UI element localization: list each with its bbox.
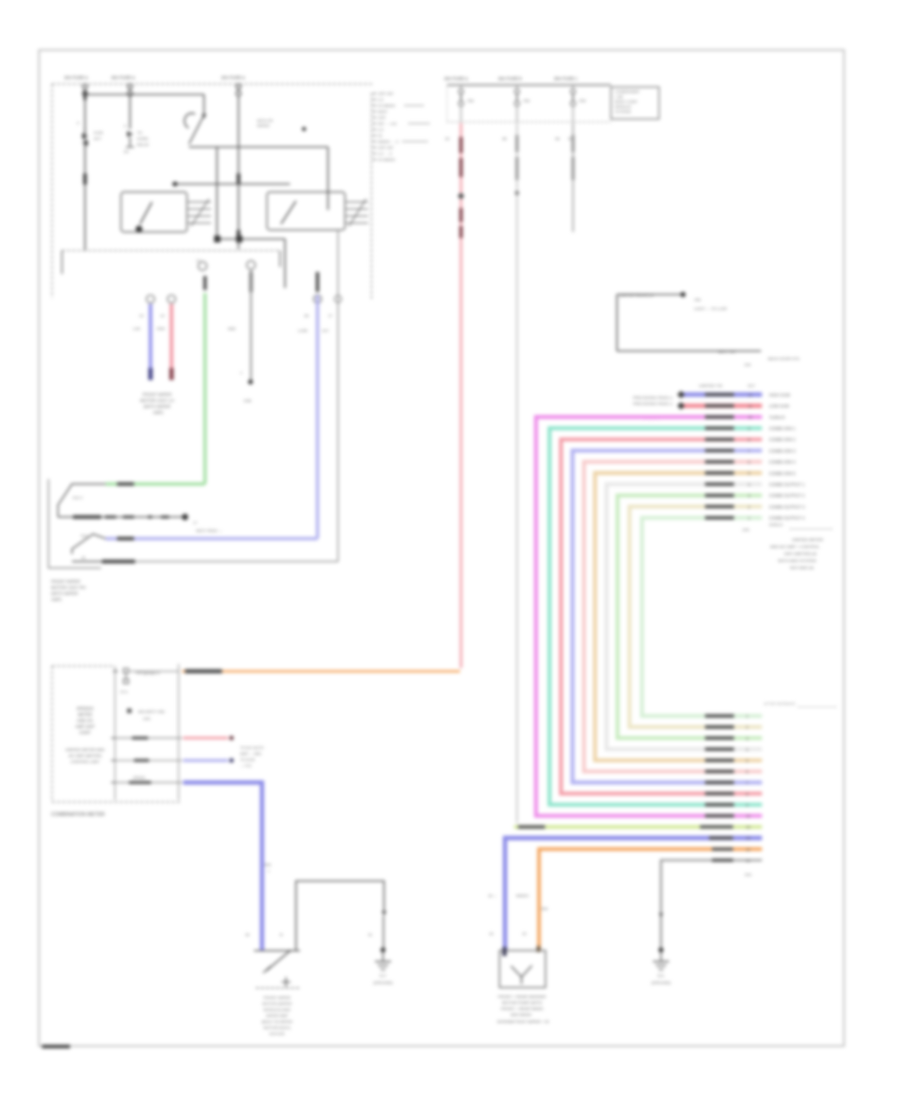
svg-text:WITH FR: WITH FR [257,119,273,123]
wire gray F6 drop [572,123,574,232]
label on lime row [518,825,545,828]
wire loop row 9 (#e8e8e8) [607,484,763,749]
svg-text:WASH → 2: WASH → 2 [378,139,399,144]
wire gray drop [250,269,252,380]
svg-text:CONTROL UNIT: CONTROL UNIT [70,759,100,764]
combination meter right rail [178,664,180,800]
label on row 6 [705,449,734,452]
svg-text:FRONT WIPER: FRONT WIPER [142,392,171,397]
svg-text:• UB: • UB [615,95,623,99]
wiper motor ground [373,950,393,985]
label on row 2 [705,404,734,407]
label on F6 wire [571,135,574,180]
meter left text block [75,706,95,735]
svg-text:MOTOR PUMP (WITH: MOTOR PUMP (WITH [502,1000,542,1005]
pin circle K2 drop [334,295,341,302]
svg-text:17: 17 [196,258,201,263]
unified meter text block [770,537,823,570]
wire blue lamp LH [149,304,153,368]
label on lavender wire [316,272,319,292]
svg-text:LOW SAW: LOW SAW [769,404,789,409]
svg-text:FRONT WIPER: FRONT WIPER [263,995,290,1000]
wiper motor frame [296,881,387,950]
connector lead blue [72,534,106,554]
svg-text:E11 2: E11 2 [73,496,83,500]
svg-text:PRECEDING PAGE a: PRECEDING PAGE a [633,401,673,406]
svg-text:7: 7 [748,449,750,453]
svg-text:CONDENSER: CONDENSER [615,90,640,94]
diode symbol below fuse F2 [124,124,150,154]
label on row 4 [705,427,734,430]
svg-text:E41: E41 [745,873,752,877]
svg-text:MOTOR ASSY RH: MOTOR ASSY RH [51,585,86,590]
label on blue washer row [709,836,733,839]
periwinkle stub end dot [229,758,233,762]
svg-text:7: 7 [746,781,748,785]
label on ground row [712,859,733,862]
svg-text:TO ECM: TO ECM [240,758,255,762]
svg-text:15A FUSE a: 15A FUSE a [111,75,135,80]
gray wire end dot [248,380,253,385]
combination meter dashed left [51,666,53,802]
svg-text:R/W: R/W [157,326,165,331]
wire loop row 4 (#8ee4cc) [550,428,763,805]
connector hatch right of relay K1 [188,199,211,226]
wiper relay note top line [617,293,683,298]
svg-text:AMP UNIT: AMP UNIT [75,724,95,729]
node dot relay note [680,292,685,297]
note text inside box [257,119,273,128]
node dot on F5 wire [515,191,519,195]
relay K2 switch blade [281,201,296,224]
svg-text:38: 38 [502,136,507,141]
meter pin row periwinkle [111,759,182,761]
wire black bottom run [72,561,338,563]
wire gray F5 drop [516,123,518,823]
svg-text:AMP): AMP) [153,410,164,415]
svg-text:MOTOR ASSY): MOTOR ASSY) [264,1025,292,1030]
wire relay feed horizontal [172,183,290,185]
svg-text:3: 3 [746,737,748,741]
svg-text:8: 8 [746,792,748,796]
label on F3 wire lower [237,230,241,236]
svg-text:6: 6 [748,461,750,465]
fuse F1 [83,84,88,96]
wire periwinkle stub [183,759,228,762]
svg-text:WITH NAVI SYSTEM: WITH NAVI SYSTEM [778,558,816,563]
pin circle 5 [314,295,322,303]
label on F3 wire [237,174,241,185]
svg-text:WIPER AMP: WIPER AMP [266,1013,288,1018]
svg-text:1: 1 [240,370,243,375]
dashed box combination-switch left edge [51,84,53,298]
red stub end dot [229,736,233,740]
combination switch bracket [62,251,280,275]
terminal square T2 [237,237,242,242]
svg-text:10A FUSE a: 10A FUSE a [221,75,245,80]
svg-text:TO: TO [137,131,142,135]
svg-text:5: 5 [746,759,748,763]
label on loop row 9 bottom [705,748,734,751]
svg-text:A/C AMP (METER): A/C AMP (METER) [68,753,102,758]
svg-text:17: 17 [193,521,197,525]
meter pin row orange [130,670,179,672]
label on loop row 7 bottom [705,770,734,773]
svg-text:18 →: 18 → [488,894,497,898]
svg-text:L/W: L/W [133,326,140,331]
label on row 10 [705,494,734,497]
svg-text:E27: E27 [748,383,756,388]
svg-text:12A: 12A [742,527,749,532]
svg-text:18: 18 [81,556,85,560]
svg-text:12A: 12A [744,363,751,367]
wire switch output [189,146,328,148]
washer pump labels upper [488,894,530,898]
svg-text:E9: E9 [124,150,129,154]
svg-text:9: 9 [748,427,750,431]
wire row 2 (#f28b96) [677,402,762,410]
note under top group [769,523,833,529]
label on row 12 [705,516,734,519]
wire switch drop to node [216,147,218,239]
combination meter dashed top [52,665,114,667]
svg-text:CONT: CONT [79,730,91,735]
wire lime row [514,825,762,829]
label on lavender horizontal [117,537,134,541]
svg-text:(BUILT IN WIPER: (BUILT IN WIPER [262,1019,293,1024]
svg-text:28: 28 [304,313,309,318]
label on red wire lower [459,208,463,238]
svg-text:WIPER: WIPER [257,124,270,128]
ground symbol right [651,950,671,985]
wiper motor switch blade [263,950,291,973]
svg-text:a: a [77,121,79,125]
svg-text:AND A/C: AND A/C [77,718,93,723]
label on lime row mid [700,825,733,828]
label on row 1 [705,393,734,396]
svg-text:AFTER SEPARATE: AFTER SEPARATE [764,702,796,706]
washer motor V symbol [511,966,532,985]
wire red lamp LH [170,304,174,368]
washer pin labels [489,932,526,936]
svg-text:(WIPER RELAY) a: (WIPER RELAY) a [620,293,654,298]
terminal cap red [169,368,173,380]
svg-text:a: a [124,124,127,128]
svg-text:INT → 4-6: INT → 4-6 [378,121,397,126]
combination meter inner rail [114,666,116,800]
svg-text:2: 2 [746,726,748,730]
svg-text:HORN: HORN [137,137,148,141]
svg-text:HI WASH: HI WASH [378,157,395,162]
svg-text:24: 24 [746,826,750,830]
svg-text:15: 15 [522,932,526,936]
svg-text:(WITH WIPER: (WITH WIPER [144,404,171,409]
svg-text:MODULE: MODULE [615,105,632,109]
svg-text:E21: E21 [658,974,665,978]
label on loop row 12 bottom [705,714,734,717]
wiper motor ground node [381,948,386,953]
svg-text:LO → 3: LO → 3 [378,151,393,156]
svg-text:COMBI OUTPUT 1: COMBI OUTPUT 1 [769,482,805,487]
connector lead green [58,484,106,517]
pin circle 4 [247,261,256,270]
svg-text:4: 4 [746,748,748,752]
washer motor box [500,951,546,988]
relay K2 box [267,192,345,230]
label on gray wire [249,272,252,292]
label on row 11 [705,505,734,508]
wire blue meter to motor [183,783,262,951]
wiper relay note bottom [617,349,761,354]
svg-text:UNIFIED METER: UNIFIED METER [792,537,823,542]
svg-text:METER: METER [78,712,92,717]
svg-text:17: 17 [328,313,333,318]
svg-text:30A: 30A [541,907,548,911]
lamp bracket left [49,479,102,568]
svg-text:COMBINATION METER: COMBINATION METER [51,812,105,818]
svg-text:20A: 20A [579,99,586,103]
svg-text:31: 31 [368,932,372,937]
power source text [615,90,640,114]
fuse F5 [515,85,531,122]
svg-text:COMBI S/W 4: COMBI S/W 4 [769,460,796,465]
svg-text:2: 2 [748,505,750,509]
label on loop row 4 bottom [705,803,734,806]
label on row 7 [705,460,734,463]
terminal cap orange washer [537,946,541,952]
wiper motor text block [262,995,293,1036]
svg-text:3: 3 [748,494,750,498]
meter gauge symbol [124,669,161,684]
label on green wire [203,276,206,290]
wire node bar drop [284,239,286,288]
fuse F6 [571,85,587,122]
svg-text:SPEEDO: SPEEDO [76,706,93,711]
washer motor text block [497,994,549,1024]
svg-text:15A: 15A [523,99,530,103]
svg-text:L/OR: L/OR [298,328,307,333]
label on row 8 [705,471,734,474]
svg-text:E105: E105 [94,131,103,135]
svg-text:30A: 30A [264,862,271,867]
wire fuse F2 down [129,96,131,129]
svg-text:18: 18 [245,932,249,937]
relay K1 switch blade [140,202,152,224]
svg-text:1: 1 [748,517,750,521]
svg-text:E12: E12 [81,534,88,538]
meter stub ref text [240,746,264,768]
node dot in box [302,127,306,131]
svg-text:6: 6 [746,770,748,774]
svg-text:12 a: 12 a [120,690,128,694]
meter left text block 2 [65,747,105,764]
svg-text:W/O NAVI ab: W/O NAVI ab [790,565,814,570]
IPDM dashed left [446,87,448,120]
label on loop row 10 bottom [705,736,734,739]
label on loop row 8 bottom [705,759,734,762]
meter pin row blue [111,776,182,783]
svg-text:OFF: OFF [378,115,387,120]
connector symbol on F1 wire [82,129,103,148]
fuse F3 [236,84,241,96]
label on row 5 [705,438,734,441]
svg-text:FRONT + REAR WASHER: FRONT + REAR WASHER [498,994,546,999]
node dot on relay feed [173,182,178,187]
svg-text:OFF INT: OFF INT [378,91,394,96]
label on loop row 6 bottom [705,781,734,784]
svg-text:22: 22 [746,848,750,852]
wire green drop [203,293,206,484]
svg-text:11: 11 [748,405,752,409]
wire frame leg to ground [383,916,385,948]
fuse F4 [459,85,475,122]
dashed box combination-switch right edge [371,93,373,299]
svg-text:9: 9 [746,803,748,807]
label on row 3 [705,415,734,418]
svg-text:TO A/C AUTO: TO A/C AUTO [240,746,264,750]
svg-text:16: 16 [489,932,493,936]
svg-text:INTERMITTENT WIPER + W: INTERMITTENT WIPER + W [497,1019,549,1024]
svg-text:8: 8 [748,438,750,442]
wiper motor stop symbol [282,977,291,987]
svg-text:SECURITY IND: SECURITY IND [138,710,165,714]
svg-text:4: 4 [748,483,750,487]
svg-text:14: 14 [160,313,165,318]
fuse F2 [128,84,133,96]
terminal cap blue [148,368,152,380]
svg-text:B: B [280,932,283,937]
wire green horizontal [106,482,205,485]
IPDM dashed bottom [447,121,611,123]
svg-text:HI: HI [378,133,382,138]
svg-text:LO: LO [378,97,383,102]
svg-text:COMBI S/W 5: COMBI S/W 5 [769,471,796,476]
legend text block right of box [373,91,430,162]
wire ground row [661,860,762,950]
label on orange wire [185,669,222,673]
svg-text:AND A/C AMP + CONTROL: AND A/C AMP + CONTROL [770,544,820,549]
terminal cap blue washer [502,947,506,956]
svg-text:BODY CONT: BODY CONT [615,100,638,104]
label G on F1 wire [83,174,87,185]
label on orange washer row [712,847,733,850]
wire node bar [216,238,285,240]
svg-text:1: 1 [746,715,748,719]
svg-text:M77: M77 [94,137,101,141]
wire loop row 12 (#d6f0d6) [642,518,762,716]
faint ref row above bottom group [764,702,836,707]
svg-text:13: 13 [139,313,144,318]
label on loop row 5 bottom [705,792,734,795]
svg-text:E24 E25: E24 E25 [270,1031,285,1036]
svg-text:SHIELD: SHIELD [769,523,783,527]
lamp RH text block [51,579,86,602]
combination meter dashed bottom [52,801,180,803]
lamp LH text block [140,392,174,415]
relay K2 to bottom-run wire [337,231,339,562]
wire loop row 3 (#ee8eea) [536,417,762,816]
wire loop row 10 (#c8ecc0) [618,495,763,738]
svg-text:TURN R: TURN R [769,415,785,420]
wire loop row 11 (#ede6c6) [630,507,763,727]
pin circle 2 [168,295,176,303]
svg-text:LO: LO [378,127,383,132]
IPDM bus bar [447,84,611,86]
svg-text:→ F12: → F12 [240,764,251,768]
svg-text:COMBI S/W 2: COMBI S/W 2 [769,437,796,442]
shielded wire run [58,516,185,518]
wire lavender drop [316,295,319,539]
label on row 9 [705,483,734,486]
pin label below F6 [555,136,573,141]
svg-text:UNIFIED TW: UNIFIED TW [699,383,722,388]
svg-text:21: 21 [746,859,750,863]
junction dot on shielded run [182,514,188,520]
svg-text:G/Y: G/Y [322,328,329,333]
svg-text:5: 5 [748,472,750,476]
svg-text:FRONT + REAR WASH: FRONT + REAR WASH [501,1006,543,1011]
relay note text [694,298,727,311]
label on loop row 11 bottom [705,725,734,728]
svg-text:15A FUSE a: 15A FUSE a [444,76,468,81]
ignition switch SW1 [184,95,206,145]
pin circle 1 [147,295,155,303]
svg-text:HIGH SAW: HIGH SAW [769,392,790,397]
label on green horizontal [117,482,134,486]
label on loop row 3 bottom [705,814,734,817]
power source box [611,87,659,119]
diamond on red wire [458,193,465,200]
relay K1 node dot [136,226,143,233]
meter LED symbol [127,709,165,722]
label on F1 wire [83,92,86,101]
label on red wire upper [459,137,463,177]
connector header text [699,383,756,388]
wire loop row 7 (#f8cccc) [584,462,762,772]
svg-text:LED: LED [143,717,151,721]
svg-text:COMBI OUTPUT 3: COMBI OUTPUT 3 [769,504,805,509]
svg-text:32: 32 [445,136,450,141]
wiper relay note left leg [616,295,618,352]
svg-text:MOTOR ASSY LH: MOTOR ASSY LH [140,398,174,403]
svg-text:M29 WASH: M29 WASH [511,1012,532,1017]
wire red main drop [460,123,463,668]
svg-text:NEXT INT: NEXT INT [718,349,737,354]
svg-text:LIGHT → TO LLSR: LIGHT → TO LLSR [694,307,727,311]
svg-text:OFF INT: OFF INT [378,145,394,150]
svg-text:L: L [268,868,271,873]
svg-text:E38: E38 [244,398,252,403]
svg-text:SPEED: SPEED [133,776,146,780]
svg-text:AMP): AMP) [51,597,62,602]
dashed box combination-switch top edge [52,83,372,85]
svg-text:UNIFIED METER AND: UNIFIED METER AND [65,747,105,752]
svg-text:MOTOR (WIPER: MOTOR (WIPER [262,1001,292,1006]
tick on ground wire [659,913,663,918]
wiper motor dashed base [256,987,300,989]
svg-text:M28: M28 [228,327,235,331]
wire fuse F3 down [238,96,240,249]
svg-text:(WITH WIPER: (WITH WIPER [51,591,78,596]
svg-text:(GROUND): (GROUND) [651,981,671,985]
svg-text:SYSTEM: SYSTEM [615,110,631,114]
wire orange to combination meter [182,670,460,673]
wire lavender horizontal [106,537,318,540]
ref label next page [193,521,222,533]
svg-text:23: 23 [746,837,750,841]
wire orange washer row [539,849,762,949]
wire blue washer row [505,838,762,950]
